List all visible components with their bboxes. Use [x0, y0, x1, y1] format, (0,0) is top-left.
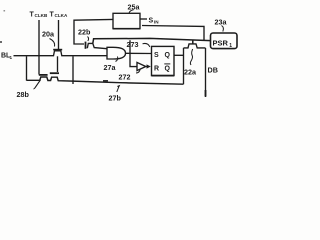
svg-text:CLKA: CLKA [55, 13, 68, 18]
wire TCLKB vertical [38, 20, 40, 75]
label PSR1 inside box [213, 39, 233, 50]
label BL1 [1, 53, 13, 61]
svg-text:28b: 28b [17, 90, 30, 99]
wire AND output to latch S [126, 52, 152, 54]
wire middle line to PSR1 [93, 38, 211, 43]
wire TCLKA vertical [58, 20, 60, 50]
buffer 272 arrowhead [147, 64, 151, 68]
leader 27a [116, 57, 118, 62]
svg-text:PSR: PSR [213, 39, 229, 48]
wire bit line BL [14, 51, 108, 56]
svg-text:CLKB: CLKB [35, 13, 48, 18]
svg-text:273: 273 [127, 40, 139, 49]
wire latch Q output [174, 54, 184, 56]
svg-text:S: S [149, 17, 154, 24]
wire branch down to buffer 272 [130, 40, 137, 66]
noise junction on bottom line [103, 80, 108, 82]
leader 273 [143, 43, 150, 47]
svg-text:272: 272 [119, 73, 131, 82]
transistor 22a gate tick [192, 41, 194, 44]
leader 22a squiggle [190, 49, 192, 65]
svg-text:1: 1 [229, 43, 232, 49]
noise speck top left [4, 10, 6, 12]
wire vertical Q node to bottom line [183, 48, 185, 84]
label TCLKB [30, 12, 48, 19]
svg-text:R: R [154, 66, 159, 73]
wire BL branch down at x26.5 [26, 56, 28, 80]
svg-text:S: S [154, 52, 159, 59]
svg-text:23a: 23a [215, 18, 228, 27]
wire SIN line down to PSR input [142, 26, 204, 41]
register 25a box [113, 13, 140, 28]
wire from 25a left side down to 22b [74, 19, 113, 44]
svg-text:Q: Q [165, 52, 171, 59]
leader 20a [50, 39, 55, 47]
transistor 22a channel [184, 44, 206, 48]
leader 23a [222, 26, 224, 32]
svg-text:DB: DB [208, 66, 218, 75]
leader 28b arrow [34, 80, 41, 89]
svg-text:25a: 25a [128, 3, 141, 12]
wire 27b bottom line with transistor humps [27, 77, 184, 84]
leader 27b [117, 86, 119, 92]
leader 22b [88, 37, 89, 42]
label SIN [149, 17, 160, 24]
transistor 22b gate bar [85, 42, 87, 49]
svg-text:Q: Q [165, 66, 171, 73]
noise speck left edge [0, 41, 2, 43]
svg-text:22b: 22b [78, 28, 91, 37]
transistor 28b gate bar [39, 74, 48, 76]
svg-text:22a: 22a [184, 68, 197, 77]
transistor (BL-gated) gate bar [50, 72, 59, 74]
wire 25a to SIN [140, 18, 147, 20]
svg-text:27a: 27a [104, 63, 117, 72]
transistor 22b channel [87, 43, 107, 48]
wire BL branch down at x57.5 [57, 56, 59, 72]
svg-text:1: 1 [10, 55, 13, 60]
transistor 20a gate bar [53, 49, 62, 51]
latch S-R box [152, 46, 175, 75]
label TCLKA [50, 12, 68, 19]
leader 25a [129, 10, 134, 13]
svg-text:20a: 20a [42, 30, 55, 39]
svg-text:27b: 27b [109, 94, 122, 103]
leader 272 [136, 69, 140, 73]
wire DB vertical [205, 48, 207, 97]
svg-text:IN: IN [154, 19, 159, 24]
PSR1 box [211, 33, 238, 49]
AND gate 27a [107, 47, 126, 59]
buffer 272 triangle [137, 62, 146, 70]
latch pin labels [154, 52, 171, 73]
wire vertical x73 from BL to bottom line [72, 56, 74, 84]
